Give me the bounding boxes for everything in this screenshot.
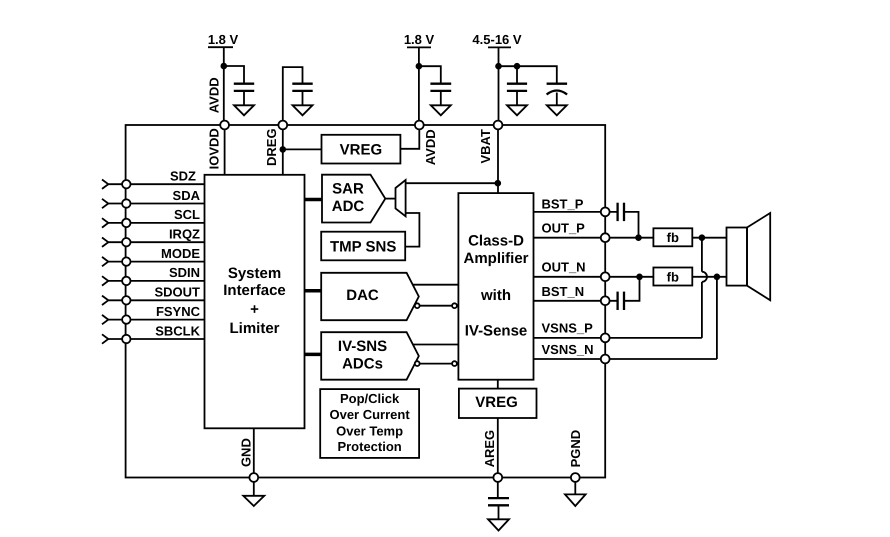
pin SDIN wire and arrow <box>102 265 205 285</box>
pin label IOVDD <box>206 128 221 169</box>
bus System Interface to SAR ADC <box>305 198 323 202</box>
pin OUT_P wire <box>534 220 654 237</box>
svg-text:SDIN: SDIN <box>169 265 200 280</box>
svg-text:BST_P: BST_P <box>542 197 584 212</box>
pin circle SDOUT <box>122 296 130 304</box>
pin SDA wire and arrow <box>102 188 205 208</box>
svg-text:IOVDD: IOVDD <box>206 128 221 169</box>
pin circle BST_N <box>601 296 610 305</box>
svg-text:TMP SNS: TMP SNS <box>330 238 396 255</box>
wire fb to speaker (OUT_N) <box>692 276 726 278</box>
wire C5 to ground <box>556 93 558 106</box>
svg-text:VBAT: VBAT <box>478 129 493 163</box>
block System Interface + Limiter <box>205 175 305 428</box>
wire IV-SNS to Class-D (upper) <box>413 344 459 346</box>
speaker LS1 <box>727 213 771 300</box>
pin SDZ wire and arrow <box>102 169 205 189</box>
wire mux to TMP SNS <box>405 213 419 247</box>
pin VSNS_N wire <box>534 342 717 359</box>
capacitor C6 <box>488 498 509 505</box>
svg-text:SDZ: SDZ <box>170 169 196 184</box>
svg-text:DAC: DAC <box>346 287 379 304</box>
bus System Interface to DAC <box>305 289 322 293</box>
pin circle AVDD <box>415 121 424 130</box>
junction AVDD pin supply <box>416 63 423 70</box>
svg-text:Over Current: Over Current <box>329 407 410 422</box>
sensor TMP SNS <box>321 232 405 261</box>
pin circle VSNS_N <box>601 355 610 364</box>
pin circle IOVDD <box>220 121 229 130</box>
bus System Interface to IV-SNS ADCs <box>305 353 322 357</box>
pin FSYNC wire and arrow <box>102 304 205 324</box>
svg-text:AREG: AREG <box>482 430 497 468</box>
wire DAC to Class-D (lower, inverting) <box>415 303 457 308</box>
pin circle SBCLK <box>122 335 130 343</box>
pin BST_N wire <box>534 284 618 301</box>
pin circle SCL <box>122 219 130 227</box>
svg-text:1.8 V: 1.8 V <box>208 32 239 47</box>
junction DREG/VREG <box>280 146 287 153</box>
ground (PGND pin) <box>565 482 586 506</box>
ground (C5) <box>547 105 567 115</box>
pin label GND <box>239 438 254 467</box>
wire Class-D to VREG (bottom) <box>497 380 499 389</box>
pin label AREG <box>482 430 497 468</box>
svg-text:SCL: SCL <box>174 207 200 222</box>
pin SCL wire and arrow <box>102 207 205 227</box>
svg-text:VREG: VREG <box>475 394 518 411</box>
svg-text:DREG: DREG <box>264 128 279 166</box>
svg-text:+: + <box>250 301 259 318</box>
capacitor C8 (bootstrap BST_N) <box>618 292 624 310</box>
mux M1 <box>396 180 406 216</box>
pin SBCLK wire and arrow <box>102 323 205 343</box>
chip outline U1 <box>126 125 606 478</box>
svg-text:VSNS_P: VSNS_P <box>542 321 594 336</box>
wire 1.8V supply to AVDD pin <box>418 47 420 125</box>
junction VBAT-mux <box>495 180 502 187</box>
svg-text:Protection: Protection <box>337 439 401 454</box>
svg-text:VSNS_N: VSNS_N <box>542 342 594 357</box>
junction BST_N/OUT_N <box>636 274 643 281</box>
pin circle VBAT <box>494 121 503 130</box>
svg-text:IV-SNS: IV-SNS <box>338 338 387 355</box>
svg-text:fb: fb <box>667 230 679 245</box>
adc SAR ADC <box>322 175 385 223</box>
capacitor C5 polarized <box>547 84 568 95</box>
capacitor C1 <box>234 84 254 91</box>
ground (C2) <box>293 105 313 115</box>
pin label AVDD <box>423 129 438 165</box>
svg-text:OUT_P: OUT_P <box>542 220 586 235</box>
svg-text:VREG: VREG <box>340 142 383 159</box>
svg-text:fb: fb <box>667 269 679 284</box>
block Pop/Click protection <box>320 389 419 458</box>
ground (C4) <box>507 105 527 115</box>
svg-text:ADC: ADC <box>332 198 365 215</box>
wire DREG pin to capacitor C2 <box>283 67 303 125</box>
pin label VBAT <box>478 129 493 163</box>
junction VBAT supply A <box>495 63 502 70</box>
pin BST_P wire <box>534 197 618 212</box>
wire System Interface to GND pin <box>253 428 255 477</box>
pin circle FSYNC <box>122 315 130 323</box>
svg-text:Interface: Interface <box>223 282 286 299</box>
wire IV-SNS to Class-D (lower, inverting) <box>415 361 457 366</box>
wire IOVDD pin to System Interface <box>224 125 226 175</box>
junction OUT_P/VSNS_P <box>699 234 706 241</box>
pin circle SDIN <box>122 277 130 285</box>
svg-text:AVDD: AVDD <box>206 77 221 113</box>
amplifier Class-D <box>458 193 533 380</box>
svg-text:AVDD: AVDD <box>423 129 438 165</box>
wire DAC to Class-D (upper) <box>413 284 459 286</box>
svg-text:Pop/Click: Pop/Click <box>340 391 400 406</box>
svg-text:IV-Sense: IV-Sense <box>465 323 528 340</box>
pin circle OUT_P <box>601 233 610 242</box>
wire C3 to ground <box>440 91 442 105</box>
wire C6 to ground <box>498 505 500 519</box>
svg-text:ADCs: ADCs <box>342 355 383 372</box>
filter fb (OUT_P) <box>653 228 692 246</box>
svg-text:OUT_N: OUT_N <box>542 260 586 275</box>
wire VREG output to AVDD pin <box>400 125 419 149</box>
pin circle GND <box>249 473 258 482</box>
supply label 1.8 V (AVDD rail) <box>208 32 239 47</box>
pin circle PGND <box>571 473 580 482</box>
pin circle AREG <box>493 473 502 482</box>
svg-text:4.5-16 V: 4.5-16 V <box>472 32 521 47</box>
capacitor C4 <box>507 84 527 91</box>
svg-text:Limiter: Limiter <box>229 320 279 337</box>
svg-text:System: System <box>228 265 281 282</box>
svg-text:BST_N: BST_N <box>542 284 585 299</box>
svg-text:SAR: SAR <box>332 181 364 198</box>
wire VBAT supply to VBAT pin <box>498 47 500 125</box>
capacitor C2 <box>292 84 312 91</box>
svg-text:Over Temp: Over Temp <box>336 423 403 438</box>
junction OUT_N/VSNS_N <box>714 274 721 281</box>
pin MODE wire and arrow <box>102 246 205 266</box>
wire SAR ADC to mux <box>385 198 395 200</box>
svg-text:SDOUT: SDOUT <box>155 285 201 300</box>
svg-text:Amplifier: Amplifier <box>463 250 528 267</box>
pin IRQZ wire and arrow <box>102 227 205 247</box>
wire C4 to ground <box>516 91 518 105</box>
wire mux to VBAT net <box>406 182 498 184</box>
wire C8 to OUT_N <box>624 277 640 301</box>
svg-text:PGND: PGND <box>568 430 583 468</box>
wire branch to capacitor C1 <box>224 66 244 83</box>
wire AVDD supply to IOVDD pin <box>223 47 225 125</box>
junction BST_P/OUT_P <box>635 234 642 241</box>
svg-text:GND: GND <box>239 438 254 467</box>
dac DAC <box>321 273 419 320</box>
pin SDOUT wire and arrow <box>102 285 205 305</box>
junction AVDD supply <box>221 63 228 70</box>
pin circle SDA <box>122 199 130 207</box>
junction VBAT supply B <box>514 63 521 70</box>
ground (C1) <box>234 105 254 115</box>
svg-text:Class-D: Class-D <box>468 233 524 250</box>
wire branch to capacitors C4 C5 <box>499 66 557 83</box>
wire OUT_P to VSNS_P with hop <box>702 238 707 338</box>
wire AREG pin to capacitor C6 <box>497 482 499 498</box>
net label AVDD (external) <box>206 77 221 113</box>
pin circle MODE <box>122 257 130 265</box>
wire DREG pin to System Interface <box>282 125 284 175</box>
supply label 4.5-16 V (VBAT rail) <box>472 32 521 47</box>
wire branch to capacitor C3 <box>419 66 441 83</box>
pin label DREG <box>264 128 279 166</box>
svg-text:SDA: SDA <box>173 188 201 203</box>
pin circle VSNS_P <box>601 334 610 343</box>
supply label 1.8 V (AVDD pin) <box>404 32 435 47</box>
regulator VREG (top) <box>322 135 401 164</box>
wire OUT_N to VSNS_N <box>716 277 718 359</box>
wire fb to speaker (OUT_P) <box>692 237 726 239</box>
svg-text:IRQZ: IRQZ <box>169 227 200 242</box>
svg-text:SBCLK: SBCLK <box>155 323 200 338</box>
regulator VREG (bottom) <box>459 389 537 418</box>
pin circle SDZ <box>122 180 130 188</box>
ground (GND pin) <box>243 482 264 506</box>
pin label PGND <box>568 430 583 468</box>
ground (C3) <box>431 105 451 115</box>
pin circle IRQZ <box>122 238 130 246</box>
pin circle BST_P <box>601 208 610 217</box>
capacitor C3 <box>430 84 451 91</box>
svg-text:with: with <box>480 287 511 304</box>
wire C7 to OUT_P <box>624 212 639 238</box>
wire C2 to ground <box>302 91 304 105</box>
capacitor C7 (bootstrap BST_P) <box>618 203 624 221</box>
pin circle OUT_N <box>601 272 610 281</box>
ground (C6) <box>488 519 509 530</box>
svg-text:MODE: MODE <box>161 246 200 261</box>
pin OUT_N wire <box>534 260 654 277</box>
wire VBAT pin into chip <box>497 125 499 193</box>
filter fb (OUT_N) <box>653 268 692 286</box>
adc IV-SNS ADCs <box>321 332 419 380</box>
svg-text:1.8 V: 1.8 V <box>404 32 435 47</box>
pin circle DREG <box>278 121 287 130</box>
wire C1 to ground <box>243 91 245 105</box>
pin VSNS_P wire <box>534 321 702 338</box>
wire VREG to AREG pin <box>497 418 499 477</box>
svg-text:FSYNC: FSYNC <box>156 304 201 319</box>
wire DREG to VREG input <box>283 148 322 150</box>
